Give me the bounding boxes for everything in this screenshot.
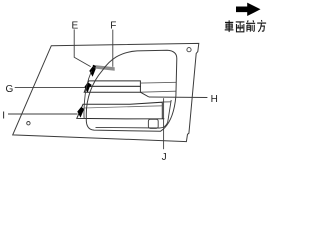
leader H	[149, 96, 208, 99]
band G upper	[86, 81, 140, 87]
ledge line lower right of band G	[140, 91, 176, 92]
connector E	[89, 67, 96, 77]
svg-text:F: F	[110, 20, 116, 31]
band G lower	[84, 86, 140, 92]
step down from band G	[140, 92, 149, 97]
grommet square bottom-right	[148, 119, 158, 128]
leader G	[15, 87, 85, 89]
connector I	[77, 107, 84, 117]
svg-text:G: G	[6, 84, 14, 95]
leader E	[74, 29, 90, 66]
svg-text:H: H	[211, 94, 218, 105]
svg-text:I: I	[2, 110, 5, 121]
screw hole top-right	[187, 48, 191, 52]
band I	[77, 102, 163, 119]
kanji 前	[246, 20, 255, 31]
kanji 両	[236, 22, 245, 32]
leader J	[163, 98, 165, 149]
kanji 方	[257, 20, 266, 32]
panel outline	[13, 43, 199, 141]
leader I	[8, 113, 78, 115]
svg-text:J: J	[162, 152, 167, 163]
kanji 車	[225, 20, 234, 32]
harness strip F (gray)	[93, 65, 115, 71]
ledge line upper right of band G	[140, 81, 176, 84]
connector G	[85, 83, 91, 93]
band I top ledge extension	[162, 101, 170, 103]
window opening (door grip recess)	[86, 50, 177, 131]
svg-text:E: E	[72, 20, 79, 31]
window recess inner line bottom-right	[96, 100, 172, 128]
wire line left	[84, 71, 92, 119]
band I inner end line	[84, 106, 162, 108]
band I bottom end	[162, 118, 164, 120]
leader F	[112, 30, 114, 67]
direction arrow	[236, 3, 261, 16]
screw hole bottom-left	[27, 122, 30, 125]
